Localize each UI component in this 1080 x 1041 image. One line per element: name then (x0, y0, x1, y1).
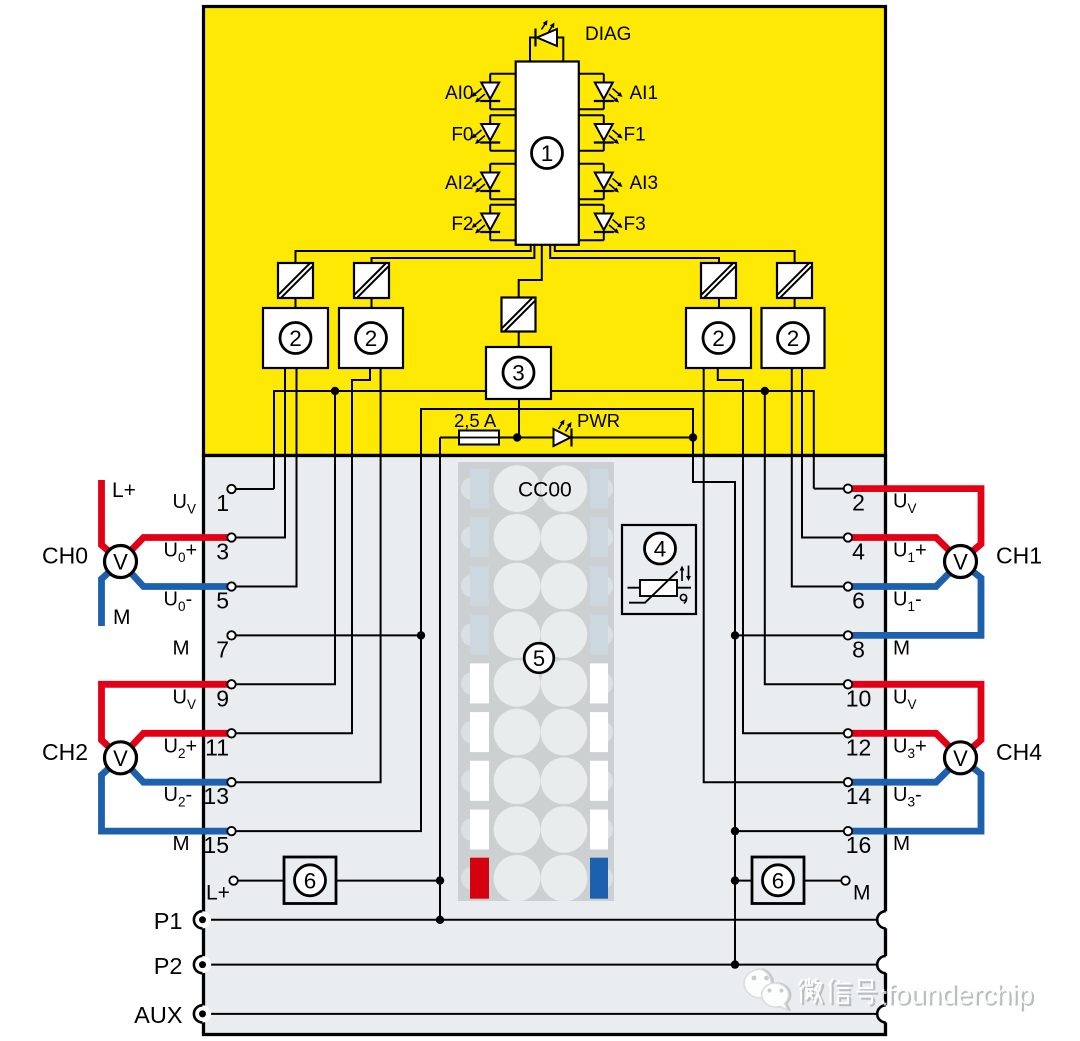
junction M trunk terminal 8 (731, 631, 739, 639)
wire terminal 8 to M trunk (735, 634, 848, 636)
compensation block 4 (622, 525, 696, 614)
wire center barrier to block 3 (518, 332, 520, 348)
P2 right terminal notch (877, 956, 894, 973)
svg-text:PWR: PWR (577, 410, 620, 431)
isolation barrier (CH4) (701, 263, 736, 298)
svg-text:13: 13 (203, 783, 229, 809)
wire terminal 11 to ADC CH2 (232, 368, 371, 733)
svg-text:P2: P2 (154, 953, 183, 979)
svg-text::founderchip: :founderchip (879, 979, 1033, 1010)
voltage source V CH2 (105, 742, 137, 774)
svg-text:CH1: CH1 (996, 543, 1042, 569)
svg-text:12: 12 (846, 734, 872, 760)
svg-text:8: 8 (852, 636, 865, 662)
svg-text:CH0: CH0 (42, 543, 88, 569)
connector blue coding tab (590, 858, 608, 899)
svg-text:V: V (113, 746, 128, 771)
svg-text:M: M (893, 636, 910, 659)
LED F0 (481, 124, 499, 141)
svg-text:11: 11 (205, 734, 229, 760)
svg-text:CC00: CC00 (518, 479, 572, 502)
svg-text:U2-: U2- (164, 784, 193, 810)
P2 left terminal notch (194, 956, 211, 973)
wire terminal 9 to Uv bus (232, 391, 336, 684)
svg-text:L+: L+ (206, 882, 230, 905)
svg-text:9: 9 (216, 685, 229, 711)
terminal circle 2 (844, 484, 852, 492)
isolation barrier (center) (502, 298, 536, 332)
terminal circle 16 (844, 827, 852, 835)
terminal circle 9 (227, 680, 235, 688)
terminal circle 10 (844, 680, 852, 688)
wire block 6 right to M terminal (804, 880, 846, 882)
svg-text:U1-: U1- (893, 589, 922, 615)
wire loop LED AI1 (579, 73, 604, 75)
svg-text:U0-: U0- (164, 589, 193, 615)
svg-text:AI0: AI0 (445, 83, 474, 104)
power bus AUX (204, 1013, 877, 1015)
svg-text:15: 15 (203, 832, 229, 858)
terminal circle 11 (227, 729, 235, 737)
terminal circle 4 (844, 533, 852, 541)
module electronics section (yellow box) (204, 7, 886, 456)
voltage source V CH1 (945, 546, 977, 578)
svg-text:CH2: CH2 (42, 739, 88, 765)
wire block 6 left to L+ trunk (336, 880, 440, 882)
terminal circle 8 (844, 631, 852, 639)
svg-text:F2: F2 (451, 214, 473, 235)
wire terminal 12 to ADC CH4 (718, 368, 848, 733)
svg-text:U3-: U3- (893, 784, 922, 810)
svg-text:1: 1 (216, 490, 229, 516)
terminal circle 15 (227, 827, 235, 835)
svg-text:5: 5 (533, 646, 545, 671)
M terminal circle (right infeed) (841, 876, 849, 884)
CH0 red wire L+ to source (102, 480, 121, 562)
junction M rail terminal 7 (417, 631, 425, 639)
front connector body (5) (458, 462, 614, 901)
LED F2 (481, 214, 499, 231)
watermark wechat icon (746, 969, 773, 998)
junction on Uv bus left (331, 387, 339, 395)
AUX left terminal notch (194, 1005, 211, 1022)
svg-text:M: M (853, 882, 871, 905)
LED DIAG (537, 29, 557, 46)
wire terminal 6 to ADC CH1 (792, 368, 848, 587)
ADC block 2 (CH4) (686, 308, 751, 368)
wire terminal 16 to M trunk (735, 830, 848, 832)
connector side tabs (470, 469, 489, 509)
isolation barrier (CH1) (777, 263, 812, 298)
LED AI0 (481, 83, 499, 100)
P1 right terminal notch (877, 911, 894, 928)
CH0 blue wire source to M (102, 562, 121, 627)
svg-text:16: 16 (846, 832, 872, 858)
svg-text:2,5 A: 2,5 A (454, 410, 497, 431)
ADC block 2 (CH1) (762, 308, 825, 368)
M rail (232, 409, 694, 831)
junction on Uv bus right (761, 387, 769, 395)
terminal circle 1 (227, 485, 235, 493)
connector red coding tab (470, 858, 489, 899)
svg-text:5: 5 (216, 588, 229, 614)
junction M trunk block6 (731, 876, 739, 884)
wire loop LED AI2 (490, 163, 516, 165)
logic block U1 (516, 62, 579, 245)
svg-text:AI3: AI3 (630, 173, 659, 194)
isolation barrier (CH0) (278, 263, 313, 298)
wire loop LED F0 (490, 114, 516, 116)
svg-text:M: M (173, 636, 190, 659)
CH4 blue wire source to terminal 14 (851, 758, 961, 782)
CH4 red wire terminal 10 loop (851, 684, 981, 758)
wire terminal 3 to ADC CH0 (232, 368, 286, 538)
junction supply/block3 (513, 433, 521, 441)
circled 5 (524, 643, 554, 673)
wire loop LED DIAG (530, 38, 535, 63)
junction L+ trunk block6 (436, 876, 444, 884)
svg-text:AI1: AI1 (630, 83, 659, 104)
wire block U1 to right outer barrier (555, 245, 795, 263)
wire loop LED F1 (579, 114, 604, 116)
wire barrier to ADC block (CH0) (295, 298, 297, 308)
svg-text:6: 6 (772, 868, 785, 893)
terminal circle 13 (227, 778, 235, 786)
supply line (440, 437, 693, 439)
svg-text:M: M (113, 606, 131, 629)
wire terminal 2 to Uv bus (814, 488, 848, 490)
L+ terminal circle (229, 876, 237, 884)
wire supply node down to P1 (L+ trunk) (439, 438, 441, 920)
thermistor symbol (628, 587, 641, 589)
svg-text:10: 10 (846, 685, 872, 711)
wire block U1 to right inner barrier (550, 245, 719, 263)
svg-text:2: 2 (787, 326, 800, 351)
M net right trunk (693, 438, 735, 965)
ADC block 2 (CH2) (339, 308, 403, 368)
CH1 red wire source to terminal 4 (851, 538, 961, 562)
svg-text:2: 2 (365, 326, 378, 351)
svg-text:6: 6 (852, 588, 865, 614)
svg-text:14: 14 (846, 783, 872, 809)
svg-text:2: 2 (852, 490, 865, 516)
CH1 red wire terminal 2 loop (851, 489, 981, 562)
svg-text:7: 7 (216, 636, 229, 662)
svg-text:F3: F3 (624, 214, 646, 235)
LED AI1 (595, 83, 613, 100)
wire block U1 to left inner barrier (372, 245, 535, 263)
connector contact circles (494, 465, 541, 512)
svg-text:3: 3 (512, 360, 525, 385)
wire terminal 14 to ADC CH4 (704, 368, 848, 782)
CH1 blue wire source to terminal 6 (851, 562, 961, 587)
terminal circle 6 (844, 582, 852, 590)
wire barrier to ADC block (CH1) (794, 298, 796, 308)
LED F1 (595, 124, 613, 141)
wire barrier to ADC block (CH4) (718, 298, 720, 308)
CH4 blue wire terminal 16 loop (851, 758, 981, 831)
svg-text:4: 4 (852, 539, 865, 565)
supply block 6 left (284, 857, 336, 904)
wire barrier to ADC block (CH2) (371, 298, 373, 308)
CH4 red wire source to terminal 12 (851, 733, 961, 758)
watermark text (801, 980, 879, 1006)
svg-text:L+: L+ (112, 479, 136, 502)
svg-text:2: 2 (289, 326, 302, 351)
power bus P2 (204, 964, 877, 966)
voltage source V CH0 (105, 546, 137, 578)
wire loop LED F3 (579, 204, 604, 206)
isolation barrier (CH2) (354, 263, 389, 298)
wire terminal 5 to ADC CH0 (232, 368, 297, 587)
svg-text:3: 3 (216, 539, 229, 565)
LED AI2 (481, 173, 499, 190)
P1 left terminal notch (194, 911, 211, 928)
svg-text:M: M (173, 832, 190, 855)
wire terminal 13 to ADC CH2 (232, 368, 381, 782)
wire loop LED AI0 (490, 73, 516, 75)
CH0 red wire source to terminal 3 (121, 538, 230, 562)
fuse 2,5 A (459, 431, 499, 445)
terminal circle 7 (227, 631, 235, 639)
connector edge bumps (461, 478, 481, 500)
junction supply/M (689, 433, 697, 441)
CH1 blue wire terminal 8 loop (851, 562, 981, 636)
junction M trunk terminal 16 (731, 827, 739, 835)
circled 4 (645, 533, 676, 564)
wire terminal 7 to M rail (232, 634, 422, 636)
wire M trunk to block 6 right (735, 880, 752, 882)
ADC block 2 (CH0) (263, 308, 328, 368)
power bus P1 (204, 919, 877, 921)
CH2 red wire source to terminal 11 (121, 733, 230, 758)
svg-text:V: V (953, 746, 968, 771)
svg-text:P1: P1 (154, 908, 183, 934)
wire loop LED F2 (490, 204, 516, 206)
voltage source V CH4 (945, 742, 977, 774)
AUX right terminal notch (877, 1005, 894, 1022)
Uv bus left segment (274, 391, 486, 489)
svg-text:M: M (893, 832, 910, 855)
svg-text:F1: F1 (624, 125, 646, 146)
wire block U1 to left outer barrier (296, 245, 531, 263)
svg-text:AUX: AUX (134, 1002, 183, 1028)
junction L+ trunk P1 (436, 916, 444, 924)
power block 3 (486, 347, 551, 399)
CH2 red wire terminal 9 loop (102, 684, 230, 758)
svg-text:CH4: CH4 (996, 739, 1042, 765)
wire terminal 1 to Uv bus (232, 488, 275, 490)
svg-text:1: 1 (541, 141, 554, 166)
junction M trunk P2 (731, 960, 739, 968)
LED PWR (554, 429, 571, 446)
Uv bus right segment (551, 391, 814, 489)
wire L+ to block 6 left (238, 880, 284, 882)
terminal circle 12 (844, 729, 852, 737)
terminal circle 14 (844, 778, 852, 786)
svg-text:4: 4 (654, 536, 667, 561)
terminal/process section (gray box) (204, 456, 886, 1035)
wire loop LED AI3 (579, 163, 604, 165)
wire block U1 to center barrier (519, 245, 542, 298)
CH2 blue wire source to terminal 15 (102, 758, 230, 831)
svg-text:DIAG: DIAG (585, 24, 631, 45)
svg-text:2: 2 (712, 326, 725, 351)
svg-text:V: V (113, 550, 128, 575)
terminal circle 5 (227, 582, 235, 590)
wire terminal 4 to ADC CH1 (802, 368, 848, 538)
svg-text:AI2: AI2 (445, 173, 474, 194)
wire block 3 to supply node (518, 399, 520, 438)
circled 1 (532, 138, 563, 169)
terminal circle 3 (227, 533, 235, 541)
svg-text:6: 6 (304, 868, 317, 893)
svg-text:F0: F0 (451, 125, 473, 146)
CH0 blue wire source to terminal 5 (121, 562, 230, 587)
svg-text:V: V (953, 550, 968, 575)
LED AI3 (595, 173, 613, 190)
supply block 6 right (752, 857, 804, 904)
LED F3 (595, 214, 613, 231)
wire terminal 10 to Uv bus (765, 391, 848, 684)
CH2 blue wire source to terminal 13 (121, 758, 230, 782)
